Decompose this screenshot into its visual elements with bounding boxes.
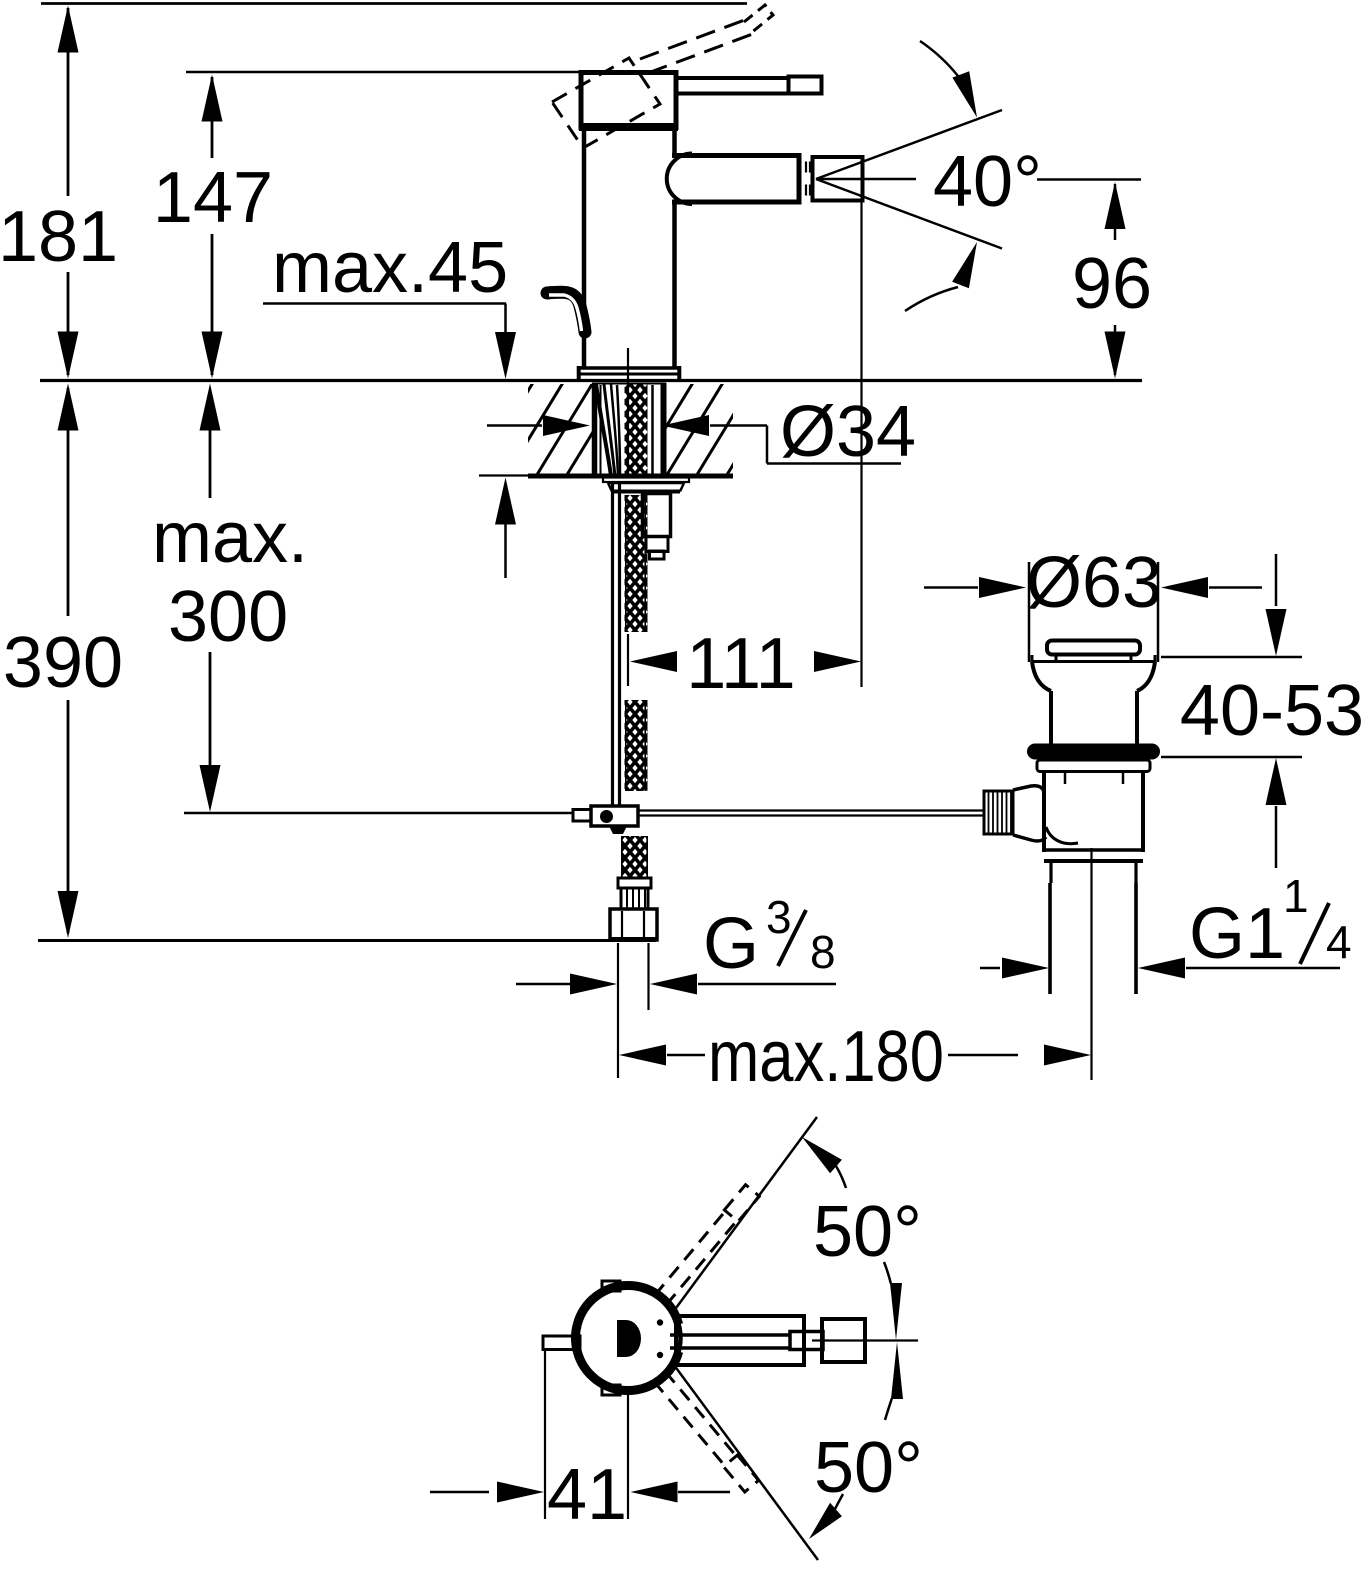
horizontal pop-up rod [638, 809, 984, 811]
hose end collar [618, 878, 651, 888]
dimension 147 [153, 75, 273, 379]
dimension max.300 [152, 384, 308, 813]
mounting surface line [40, 379, 1142, 382]
svg-text:3: 3 [766, 891, 792, 943]
swivel limit line lower [674, 1365, 818, 1560]
drain valve push knob [1047, 641, 1140, 655]
reference line 147 (faucet head top) [186, 71, 581, 74]
bottom reference line (hose end level) [38, 939, 656, 942]
countertop deck hatching [475, 381, 784, 478]
spout (plan) [676, 1316, 804, 1365]
spout [672, 153, 800, 158]
metal washer [1037, 760, 1150, 772]
braided hose segments [621, 495, 648, 878]
washer under deck [603, 478, 689, 483]
svg-text:40-53: 40-53 [1180, 671, 1364, 751]
lever stub (plan) [543, 1336, 580, 1350]
faucet body [582, 127, 587, 368]
threaded shank walls [592, 383, 598, 475]
dashed head outline (tilted position) [552, 58, 660, 148]
handle hole (D shape) [617, 1320, 641, 1357]
base flange [577, 366, 681, 370]
body circle [576, 1286, 681, 1391]
faucet centerline [627, 348, 629, 477]
knurled adjuster nut [984, 791, 1013, 834]
dimension 41 [430, 1351, 730, 1535]
svg-text:111: 111 [686, 624, 795, 704]
dimension 181 [0, 6, 118, 379]
svg-text:max.45: max.45 [272, 228, 508, 308]
dimension O63 [924, 543, 1262, 662]
dimension max.180 [619, 1017, 1091, 1097]
svg-text:G: G [703, 904, 759, 984]
flexible hose bend curves [596, 384, 611, 476]
braided hose (in shank) [625, 384, 648, 476]
hose end ribs [621, 888, 648, 909]
drain valve upper cylinder [1049, 691, 1053, 744]
dimension 96 [1037, 180, 1152, 379]
deck bottom line [479, 474, 528, 476]
dashed lever (raised position) [640, 18, 758, 73]
svg-text:G1: G1 [1189, 894, 1285, 974]
dimension max.45 [263, 228, 516, 578]
pop-up rod tee [573, 810, 591, 822]
svg-text:Ø34: Ø34 [780, 392, 916, 472]
svg-text:40°: 40° [933, 142, 1042, 222]
svg-text:max.: max. [152, 498, 308, 578]
svg-text:1: 1 [1283, 870, 1309, 922]
lever handle (side view) [676, 76, 790, 80]
dimension 40 deg [905, 41, 1042, 311]
label G1 1/4 [980, 870, 1352, 979]
svg-text:50°: 50° [814, 1428, 923, 1508]
pop-up rod (vertical) [611, 481, 614, 806]
svg-text:Ø63: Ø63 [1026, 543, 1162, 623]
svg-text:390: 390 [3, 623, 123, 703]
dimension 390 [3, 384, 123, 939]
drain valve housing [1042, 772, 1046, 852]
svg-text:96: 96 [1072, 244, 1152, 324]
spout centerline [812, 1339, 918, 1341]
drain centerline [1090, 848, 1092, 1080]
svg-text:4: 4 [1326, 916, 1352, 968]
dimension 50 deg lower [809, 1342, 923, 1539]
dimension 111 [628, 200, 862, 704]
stepped rod guide [643, 494, 671, 537]
aerator neck [805, 162, 807, 173]
svg-text:147: 147 [153, 158, 273, 238]
back pop-up knob hook [547, 292, 585, 332]
drain tailpipe [1048, 883, 1052, 994]
svg-text:50°: 50° [813, 1192, 922, 1272]
locknut [608, 482, 684, 485]
aerator [813, 157, 863, 201]
dimension O34 [487, 392, 916, 472]
ball joint boss [1013, 786, 1044, 794]
rubber seal ring [1027, 744, 1160, 760]
svg-text:41: 41 [547, 1455, 627, 1535]
svg-text:300: 300 [168, 577, 288, 657]
G3/8 nut [610, 909, 657, 940]
label G 3/8 [516, 891, 836, 1078]
dimension 50 deg upper [802, 1137, 922, 1340]
drain valve bell top [1032, 660, 1155, 663]
spray angle lines [816, 110, 1002, 179]
svg-text:181: 181 [0, 197, 118, 277]
swivel limit line upper [676, 1117, 817, 1308]
svg-text:max.180: max.180 [708, 1017, 944, 1097]
dashed lever raised (plan, upper) [654, 1185, 760, 1306]
top reference line (lever raised tip level) [41, 2, 747, 5]
max300 lower reference line [184, 812, 573, 815]
mounting tabs [602, 1281, 620, 1291]
dashed lever raised (plan, lower) [653, 1371, 759, 1492]
svg-text:8: 8 [810, 926, 836, 978]
faucet head [581, 73, 676, 128]
screw dots [657, 1319, 663, 1325]
dimension 40-53 [1161, 554, 1364, 868]
